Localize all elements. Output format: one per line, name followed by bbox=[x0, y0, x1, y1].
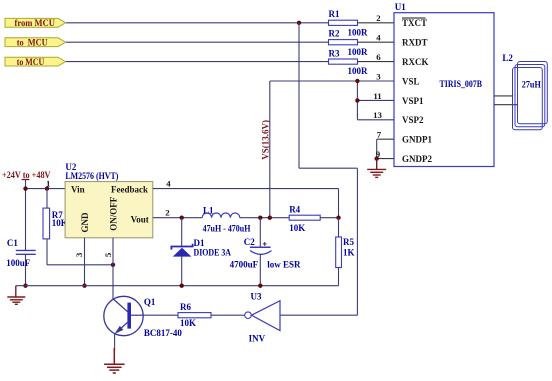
wire INV net vertical (left) bbox=[298, 23, 300, 168]
inductor L2 antenna coil bbox=[513, 62, 548, 130]
svg-text:9: 9 bbox=[376, 149, 381, 159]
junction GND3 / rail bbox=[82, 284, 86, 288]
svg-text:Vout: Vout bbox=[131, 214, 149, 224]
junction ON/OFF node bbox=[111, 263, 115, 267]
junction VSL bbox=[355, 79, 359, 83]
svg-text:TXCT: TXCT bbox=[402, 18, 427, 28]
svg-text:C1: C1 bbox=[7, 238, 18, 248]
svg-text:Feedback: Feedback bbox=[111, 185, 148, 195]
wire VS net vertical bbox=[269, 81, 271, 218]
wire VSP1 bbox=[357, 99, 394, 101]
svg-text:1K: 1K bbox=[343, 247, 355, 257]
svg-text:5: 5 bbox=[103, 252, 113, 257]
junction VSP1 bbox=[355, 98, 359, 102]
svg-text:GNDP2: GNDP2 bbox=[402, 154, 432, 164]
wire to MCU to R3 bbox=[66, 61, 329, 63]
svg-text:10K: 10K bbox=[180, 318, 196, 328]
junction C2 top bbox=[258, 216, 262, 220]
svg-text:to MCU: to MCU bbox=[17, 38, 48, 48]
wire Vout to L1 bbox=[153, 217, 202, 219]
wire R7 to ON/OFF node bbox=[47, 264, 113, 266]
svg-text:R3: R3 bbox=[329, 48, 340, 58]
svg-text:4: 4 bbox=[166, 179, 171, 189]
diode D1 bbox=[171, 218, 231, 286]
wire R5 top lead bbox=[338, 218, 340, 237]
svg-text:C2: C2 bbox=[244, 237, 255, 247]
wire R5 bottom lead bbox=[338, 268, 340, 286]
svg-text:VSL: VSL bbox=[402, 76, 420, 86]
wire R7 bottom lead bbox=[46, 239, 48, 265]
svg-text:4: 4 bbox=[376, 33, 381, 43]
svg-text:VSP2: VSP2 bbox=[402, 115, 424, 125]
transistor Q1 BC817-40 bbox=[104, 296, 183, 338]
svg-text:U1: U1 bbox=[395, 2, 406, 12]
wire from MCU to R1 bbox=[66, 22, 329, 24]
ground symbol (U1 GNDP) bbox=[367, 159, 386, 178]
ground rail bbox=[16, 285, 339, 287]
junction power node bbox=[23, 186, 27, 190]
svg-text:Vin: Vin bbox=[71, 185, 85, 195]
svg-text:ON/OFF: ON/OFF bbox=[108, 196, 118, 230]
resistor R3 bbox=[329, 48, 369, 76]
svg-text:2: 2 bbox=[376, 13, 381, 23]
ground symbol (rail left) bbox=[7, 286, 25, 305]
junction VS / Vout bbox=[268, 216, 272, 220]
svg-text:INV: INV bbox=[249, 334, 266, 344]
port flag "from MCU" bbox=[5, 18, 66, 28]
svg-text:13: 13 bbox=[373, 110, 382, 120]
wire Q1 base to R6 bbox=[143, 314, 178, 316]
wire INV net vertical (right) bbox=[356, 168, 358, 315]
wire power to Vin bbox=[26, 188, 66, 190]
svg-text:L2: L2 bbox=[502, 53, 513, 63]
svg-text:R5: R5 bbox=[343, 237, 354, 247]
wire VSL-VSP vertical bbox=[356, 81, 358, 120]
svg-text:low ESR: low ESR bbox=[267, 259, 301, 269]
inductor L1 bbox=[202, 205, 250, 233]
IC U1 TIRIS_007B bbox=[394, 2, 494, 167]
wire Feedback vertical bbox=[338, 189, 340, 218]
resistor R2 bbox=[329, 29, 369, 57]
wire ON/OFF pin 5 / Q1 collector vertical bbox=[112, 238, 114, 299]
junction D1 / rail bbox=[180, 284, 184, 288]
svg-text:LM2576 (HVT): LM2576 (HVT) bbox=[65, 171, 118, 181]
svg-text:R6: R6 bbox=[180, 302, 191, 312]
regulator U2 LM2576 bbox=[65, 162, 153, 238]
port flag "to MCU" (row 2) bbox=[5, 38, 66, 48]
wire power stem / C1 top lead bbox=[25, 180, 27, 251]
resistor R4 bbox=[289, 205, 320, 233]
junction D1 top bbox=[180, 216, 184, 220]
wire GNDP1 bbox=[377, 138, 394, 140]
svg-text:R2: R2 bbox=[329, 29, 340, 39]
wire GNDP2 bbox=[377, 158, 394, 160]
svg-text:+24V to +48V: +24V to +48V bbox=[2, 170, 51, 180]
svg-text:GNDP1: GNDP1 bbox=[402, 135, 432, 145]
wire VSL bbox=[270, 80, 394, 82]
svg-text:R4: R4 bbox=[289, 205, 300, 215]
svg-text:U3: U3 bbox=[251, 291, 262, 301]
wire INV input bbox=[280, 314, 357, 316]
wire L1 to R4 bbox=[240, 217, 289, 219]
svg-text:7: 7 bbox=[377, 130, 382, 140]
svg-text:3: 3 bbox=[376, 71, 381, 81]
svg-text:VS(13.6V): VS(13.6V) bbox=[261, 120, 271, 160]
svg-text:GND: GND bbox=[80, 212, 90, 233]
svg-text:from MCU: from MCU bbox=[15, 18, 56, 28]
svg-text:DIODE 3A: DIODE 3A bbox=[194, 248, 232, 258]
svg-text:100R: 100R bbox=[348, 47, 369, 57]
svg-text:D1: D1 bbox=[194, 238, 205, 248]
pin stub R3 to U1 pin 6 bbox=[358, 61, 395, 63]
junction from-MCU / INV net bbox=[297, 21, 301, 25]
capacitor C1 bbox=[6, 238, 35, 268]
svg-text:100uF: 100uF bbox=[6, 258, 31, 268]
resistor R5 bbox=[336, 237, 355, 268]
resistor R1 bbox=[329, 9, 369, 37]
wire GNDP vertical bbox=[376, 139, 378, 158]
svg-text:TIRIS_007B: TIRIS_007B bbox=[440, 79, 483, 89]
wire R6 to INV output bbox=[211, 314, 245, 316]
svg-text:11: 11 bbox=[373, 91, 381, 101]
wire C1 bottom lead bbox=[25, 254, 27, 285]
svg-text:Q1: Q1 bbox=[144, 297, 156, 307]
svg-text:RXDT: RXDT bbox=[402, 38, 428, 48]
svg-text:47uH - 470uH: 47uH - 470uH bbox=[203, 223, 251, 233]
svg-text:1: 1 bbox=[46, 179, 50, 189]
junction R7 top bbox=[45, 186, 49, 190]
wire VSP2 bbox=[357, 119, 394, 121]
wire GND pin 3 vertical bbox=[84, 238, 86, 286]
svg-text:BC817-40: BC817-40 bbox=[144, 328, 182, 338]
wire INV net horizontal middle bbox=[299, 167, 357, 169]
wire Feedback bbox=[153, 188, 339, 190]
junction C2 / rail bbox=[258, 284, 262, 288]
svg-text:L1: L1 bbox=[203, 205, 214, 215]
svg-text:4700uF: 4700uF bbox=[230, 259, 259, 269]
ground symbol (Q1 emitter) bbox=[104, 348, 125, 373]
svg-text:2: 2 bbox=[165, 208, 170, 218]
junction R4/R5/FB bbox=[336, 216, 340, 220]
svg-text:R1: R1 bbox=[329, 9, 340, 19]
wire R7 top lead bbox=[46, 189, 48, 209]
svg-text:100R: 100R bbox=[348, 27, 369, 37]
svg-text:VSP1: VSP1 bbox=[402, 96, 424, 106]
svg-text:27uH: 27uH bbox=[522, 80, 541, 90]
wire to MCU to R2 bbox=[66, 41, 329, 43]
wire Q1 emitter bbox=[114, 333, 116, 350]
pin stub R2 to U1 pin 4 bbox=[358, 41, 395, 43]
pin stub U1 to L2 upper bbox=[494, 95, 513, 97]
svg-text:to MCU: to MCU bbox=[17, 57, 45, 67]
wire R4 to R5 node bbox=[320, 217, 338, 219]
pin stub R1 to U1 pin 2 bbox=[358, 22, 395, 24]
svg-text:10K: 10K bbox=[289, 223, 305, 233]
resistor R6 bbox=[178, 302, 211, 328]
svg-text:RXCK: RXCK bbox=[402, 57, 429, 67]
inverter U3 INV bbox=[245, 291, 280, 343]
junction GNDP2 bbox=[375, 156, 379, 160]
svg-text:100R: 100R bbox=[348, 66, 369, 76]
capacitor C2 bbox=[230, 218, 301, 286]
port flag "to MCU" (row 3) bbox=[5, 57, 66, 67]
pin stub U1 to L2 lower bbox=[494, 104, 518, 106]
resistor R7 bbox=[43, 208, 68, 239]
svg-text:6: 6 bbox=[376, 52, 381, 62]
junction C1 / rail bbox=[23, 284, 27, 288]
svg-text:3: 3 bbox=[74, 252, 84, 257]
